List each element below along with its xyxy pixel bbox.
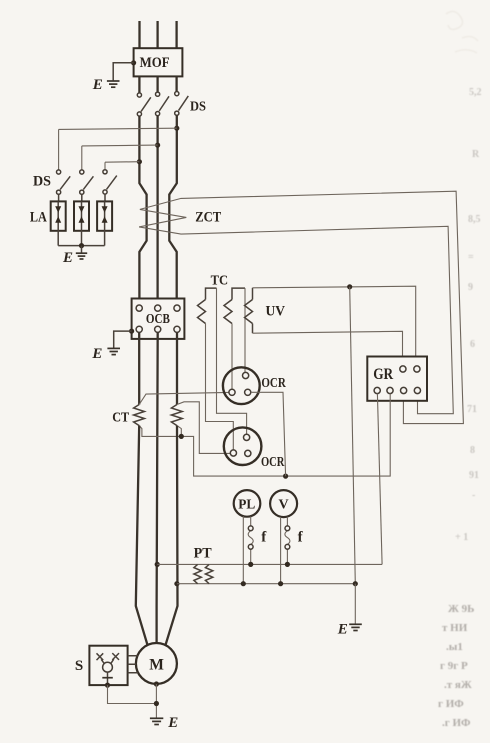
node tap phase 1: [137, 159, 142, 164]
node CT secondary junction: [179, 434, 184, 439]
oil circuit breaker OCB: [132, 299, 185, 339]
wire main phase 3 DS to OCB: [169, 115, 177, 305]
trip coil TC1: [206, 288, 217, 299]
node V fuse on top rail: [285, 562, 290, 567]
wire incoming phase 3: [175, 21, 177, 48]
trip coil TC2: [232, 288, 245, 299]
svg-text:UV: UV: [266, 303, 286, 319]
wire MOF case to earth: [113, 63, 133, 81]
svg-text:M: M: [149, 656, 164, 673]
disconnect switch DS2 pole 1: [57, 170, 71, 194]
disconnect switch DS pole 1: [137, 93, 151, 116]
svg-text:-: -: [472, 490, 475, 501]
wire main phase 3 CT to motor: [166, 426, 178, 645]
wire main phase 2 DS to OCB: [156, 116, 158, 305]
wire meter bottom rail: [177, 583, 355, 585]
node earth tap on bottom rail: [353, 581, 358, 586]
wire TC2 left lead to OCR1: [231, 324, 233, 390]
svg-text:R: R: [472, 149, 480, 160]
node tap phase 2: [155, 143, 160, 148]
svg-text:DS: DS: [33, 174, 51, 190]
svg-text:.т яЖ: .т яЖ: [444, 679, 472, 691]
svg-text:т НИ: т НИ: [442, 622, 468, 634]
svg-text:E: E: [337, 621, 348, 637]
node S box earth lead: [105, 683, 110, 688]
disconnect switch DS2 pole 3: [103, 170, 117, 194]
node MOF case junction: [131, 60, 136, 65]
ground relay GR: [367, 357, 427, 401]
svg-text:E: E: [167, 715, 178, 731]
svg-text:.ы1: .ы1: [446, 641, 463, 653]
svg-text:MOF: MOF: [140, 55, 170, 71]
svg-text:TC: TC: [211, 273, 229, 288]
ground MOF earth E: [92, 77, 120, 93]
node PT top rail tap on phase 2: [155, 562, 160, 567]
overcurrent relay OCR2: [224, 427, 262, 465]
svg-text:V: V: [279, 498, 289, 513]
node OCB case junction: [129, 329, 134, 334]
wire CT3 secondary bottom to bus: [177, 426, 181, 437]
lightning arrester LA 1: [51, 201, 66, 230]
surge absorber S box: [89, 646, 127, 685]
wire UV junction down to earth rail: [350, 287, 356, 584]
svg-text:=: =: [468, 252, 474, 263]
svg-text:9: 9: [468, 282, 473, 293]
wire main phase 1 OCB to CT: [138, 332, 140, 404]
svg-text:PL: PL: [238, 496, 255, 511]
wire TC1 left lead to OCR2: [206, 324, 234, 450]
wire meter top rail: [157, 563, 382, 565]
wire CT1 secondary bottom bus to GR pin2: [139, 394, 390, 477]
ground OCB earth E: [91, 346, 120, 362]
voltmeter V: [270, 490, 297, 517]
induction motor M: [136, 643, 177, 684]
disconnect switch DS2 pole 2: [80, 170, 94, 194]
wire MOF to DS phase 2: [156, 76, 158, 92]
wire MOF to DS phase 3: [175, 76, 177, 91]
svg-text:г 9г Р: г 9г Р: [440, 660, 468, 672]
pilot lamp PL: [234, 490, 261, 517]
node bus junction: [283, 474, 288, 479]
wire CT3 secondary top to OCR2: [177, 402, 230, 454]
wire incoming phase 1: [138, 21, 140, 48]
wire DS2 to LA leads: [59, 194, 105, 201]
svg-text:.г ИФ: .г ИФ: [442, 717, 471, 729]
wire GR pin1 to meter rail: [377, 394, 382, 565]
wire tap phase 3 to left DS: [59, 128, 177, 170]
svg-text:6: 6: [470, 339, 475, 350]
node PL fuse on top rail: [248, 562, 253, 567]
lightning arrester LA 2: [74, 201, 89, 230]
node PL lead on bottom rail: [241, 581, 246, 586]
ground motor earth E: [150, 715, 178, 731]
svg-text:OCB: OCB: [146, 311, 170, 326]
svg-text:OCR: OCR: [261, 455, 285, 470]
fuse f for PL: [248, 517, 267, 565]
node tap phase 3: [174, 126, 179, 131]
wire UV top to GR: [253, 286, 416, 366]
potential transformer PT coil A: [194, 564, 201, 583]
metering outfit MOF: [134, 48, 183, 76]
wire tap phase 2 to left DS: [82, 145, 158, 170]
svg-text:E: E: [62, 250, 73, 266]
disconnect switch DS pole 3: [175, 92, 189, 116]
wire incoming phase 2: [156, 21, 158, 48]
wire main phase 1 DS to OCB: [139, 116, 146, 305]
current transformer CT phase 1: [134, 405, 145, 426]
node UV top junction: [347, 284, 352, 289]
wire S box to motor earth junction: [108, 685, 157, 703]
svg-text:E: E: [92, 77, 103, 93]
ground LA earth E: [62, 250, 87, 266]
svg-text:PT: PT: [194, 545, 212, 561]
lightning arrester LA 3: [97, 201, 112, 230]
wire OCR1 contact to bus: [251, 392, 286, 476]
svg-text:GR: GR: [373, 366, 393, 383]
wire OCB case to earth: [114, 331, 132, 348]
zero-phase CT ZCT winding: [139, 191, 463, 423]
wire MOF to DS phase 1: [138, 76, 140, 93]
current transformer CT phase 3: [171, 405, 182, 426]
disconnect switch DS pole 2: [156, 92, 170, 116]
svg-text:71: 71: [467, 404, 477, 415]
wire main phase 2 OCB to motor: [157, 332, 158, 643]
ground meter earth E: [337, 621, 362, 637]
wire LA to earth bus: [58, 231, 104, 246]
wire motor frame to earth: [155, 684, 157, 718]
wire TC2 right lead to OCR1 top pin: [244, 288, 246, 372]
svg-text:DS: DS: [190, 99, 206, 114]
fuse f for V: [285, 517, 304, 565]
wire UV bottom to GR: [253, 331, 403, 366]
wire S box to motor links: [128, 656, 138, 673]
wire PL left lead: [242, 516, 244, 584]
node LA earth junction: [79, 243, 84, 248]
wire TC1 right lead to OCR2 top pin: [217, 288, 247, 434]
node PT bottom rail tap on phase 3: [174, 581, 179, 586]
svg-text:CT: CT: [112, 410, 130, 425]
svg-text:E: E: [91, 346, 102, 362]
wire V left lead: [280, 517, 282, 584]
wire LA earth lead: [81, 246, 83, 253]
undervoltage coil UV: [252, 288, 254, 300]
svg-text:8: 8: [470, 445, 475, 456]
svg-text:OCR: OCR: [261, 376, 286, 391]
svg-text:91: 91: [469, 470, 479, 481]
svg-text:ZCT: ZCT: [195, 210, 221, 226]
svg-text:LA: LA: [30, 210, 47, 226]
svg-text:Ж 9Ь: Ж 9Ь: [448, 603, 474, 615]
node motor frame: [154, 681, 159, 686]
svg-text:5,2: 5,2: [469, 87, 482, 98]
potential transformer PT coil B: [205, 564, 212, 583]
node motor earth junction: [154, 701, 159, 706]
node V lead on bottom rail: [278, 581, 283, 586]
wire bottom rail to earth: [354, 584, 356, 624]
svg-text:S: S: [75, 658, 83, 674]
overcurrent relay OCR1: [223, 367, 260, 404]
wire CT1 secondary top to OCR1: [139, 392, 229, 404]
wire main phase 3 OCB to CT: [176, 332, 178, 404]
svg-text:+ 1: + 1: [455, 532, 468, 543]
wire main phase 1 CT to motor: [136, 426, 148, 645]
svg-text:г ИФ: г ИФ: [438, 698, 464, 710]
svg-text:8,5: 8,5: [468, 214, 481, 225]
wire tap phase 1 to left DS: [105, 162, 139, 170]
